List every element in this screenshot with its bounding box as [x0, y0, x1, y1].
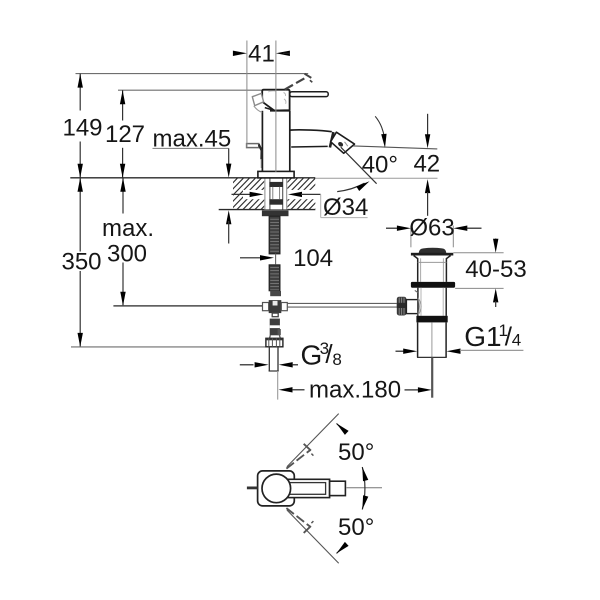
plan lever tip [330, 481, 346, 495]
pop-up knob bar [247, 144, 259, 148]
knob stem [406, 300, 418, 314]
40deg arc [337, 183, 364, 191]
waste body walls [417, 288, 419, 316]
dimension Ø34 right shaft [301, 193, 321, 195]
svg-text:Ø34: Ø34 [323, 194, 368, 221]
dimension 41 right [276, 51, 290, 56]
waste cap dome [419, 248, 447, 253]
dimension G1 1/4 left [396, 350, 404, 352]
extension line, hose end level (350 bottom) [71, 346, 266, 348]
dimension Ø63 right [453, 226, 467, 231]
plan swing line lower [287, 510, 339, 563]
dimension 42 top [427, 114, 429, 136]
dimension 104 tick [275, 254, 277, 265]
threaded rod lower [269, 265, 280, 291]
spout end joint [330, 132, 334, 147]
hex nut top band [266, 338, 283, 340]
supply pipe end [269, 370, 279, 372]
supply pipe extension line [277, 371, 279, 400]
dimension max.180 left arrow [279, 387, 293, 392]
waste tube end [417, 356, 447, 358]
svg-text:Ø63: Ø63 [409, 214, 454, 241]
dimension 149 line [79, 74, 81, 111]
dimension 350 up arrow [78, 178, 83, 192]
plan phantom cap upper [304, 444, 311, 451]
waste body inner lines [420, 288, 422, 316]
dimension G3/8 left [240, 364, 254, 366]
dimension max.300 up arrow [120, 178, 125, 192]
deck hole white-out [264, 178, 287, 209]
41 left extension line [246, 41, 248, 148]
plan phantom lever upper [286, 450, 310, 469]
hex nut facets [268, 338, 270, 347]
hose connector block [270, 319, 280, 336]
waste collar [416, 316, 447, 323]
waste neck [414, 256, 451, 282]
pop-up rod left segment [113, 305, 262, 307]
plan body square [258, 471, 295, 506]
fastening shank walls [269, 178, 271, 209]
mounting hole walls [264, 178, 266, 209]
waste boss step [415, 290, 418, 292]
Ø63 extension lines [410, 226, 412, 248]
aerator level reference line [353, 146, 437, 149]
cross fitting lower stub [272, 313, 278, 317]
svg-text:41: 41 [248, 40, 275, 67]
plan swing line upper [287, 414, 339, 467]
dimension G1 1/4 right [447, 349, 461, 354]
svg-text:50°: 50° [338, 439, 374, 466]
dimension max.300 line [122, 178, 124, 214]
plan phantom lever lower [286, 508, 310, 527]
stem inner arcs [418, 299, 419, 314]
dimension max.45 up arrow [226, 210, 231, 224]
dimension G3/8 right [279, 362, 293, 367]
lock nut below deck [262, 210, 289, 216]
waste tube centerline [431, 322, 433, 357]
rod collar [270, 291, 281, 296]
svg-text:127: 127 [105, 121, 145, 148]
plan lever outer [276, 479, 330, 497]
svg-text:8: 8 [332, 350, 341, 369]
cross fitting body [269, 300, 282, 313]
spray axis line [341, 147, 377, 184]
waste neck inner lines [420, 258, 422, 282]
leader to aerator level [375, 116, 384, 138]
spout top edge [290, 130, 332, 132]
svg-text:300: 300 [107, 240, 147, 267]
svg-text:50°: 50° [338, 514, 374, 541]
swing arc middle up arrow [362, 467, 368, 481]
dimension max.45 down arrow [226, 164, 231, 178]
leader down arrow [381, 134, 386, 148]
dimension channel white-out [243, 190, 321, 199]
dimension 40-53 top [495, 239, 497, 241]
plan lever inner [280, 483, 326, 495]
aerator ball [331, 132, 355, 153]
threaded rod upper threads [270, 218, 279, 220]
head reflection marks [284, 93, 286, 97]
swing arc upper arrow [337, 423, 349, 435]
cross fitting left wing [263, 303, 269, 311]
swing arc middle [362, 467, 365, 510]
dimension 350 line [79, 178, 81, 252]
waste neck joint line [418, 261, 447, 263]
dimension 41 left [234, 52, 240, 54]
waste tail extension line [431, 357, 433, 397]
40-53 extension lines [453, 252, 503, 254]
rod knob knurls [398, 298, 400, 315]
fastening shank upper nut [269, 182, 283, 187]
svg-text:40-53: 40-53 [465, 256, 526, 283]
svg-text:4: 4 [512, 331, 521, 350]
deck top extension to the right [315, 177, 437, 179]
lever raised cap dash [305, 74, 312, 78]
dimension 40-53 bottom [493, 288, 498, 302]
svg-text:350: 350 [61, 249, 101, 276]
plan body circle [262, 474, 291, 503]
dimension max.45 leader [153, 147, 229, 149]
dimension 149 down arrow [78, 164, 83, 178]
faucet base flange [258, 171, 294, 178]
dimension Ø34 left shaft [232, 193, 251, 195]
dimension 127 up arrow [120, 90, 125, 104]
cross fitting right wing [281, 303, 287, 311]
deck bottom line [219, 209, 316, 211]
plan centerline [346, 487, 382, 489]
waste cap rim [411, 253, 453, 256]
swing arc lower arrow [337, 542, 349, 554]
lever bar [290, 92, 328, 97]
fastening shank lower nut [269, 199, 283, 205]
svg-text:max.: max. [102, 215, 154, 242]
dimension 350 down arrow [78, 333, 83, 347]
dimension Ø34 right arrow [288, 192, 302, 197]
swing arc middle down arrow [362, 495, 368, 509]
aerator face mark [337, 141, 344, 148]
svg-text:40°: 40° [362, 152, 398, 179]
pop-up knob taper [259, 144, 262, 159]
extension line, cartridge top level (127) [118, 89, 262, 91]
hex nut [266, 338, 283, 347]
dimension Ø34 left arrow [250, 192, 264, 197]
svg-text:104: 104 [293, 245, 333, 272]
plan phantom cap lower [304, 526, 311, 533]
extension line, spout top level (149) [76, 73, 309, 75]
cartridge head outline [262, 90, 289, 111]
pop-up rod right segment [287, 302, 397, 304]
dimension 42 bottom [425, 179, 430, 193]
plan pop-up rod [247, 486, 258, 489]
swing arc upper tail [337, 423, 344, 430]
spout bottom edge [291, 145, 328, 148]
aerator face lines [345, 142, 348, 146]
threaded rod upper [269, 216, 280, 254]
rod knob [397, 297, 407, 316]
svg-text:G1: G1 [464, 321, 501, 352]
threaded rod lower threads [270, 267, 279, 269]
dimension 127 down arrow [120, 164, 125, 178]
svg-text:max.180: max.180 [309, 376, 401, 403]
rod knob mid band [397, 303, 407, 308]
waste flange [411, 282, 455, 288]
svg-text:149: 149 [62, 114, 102, 141]
dimension max.300 down arrow [120, 292, 125, 306]
Ø34 callout box [320, 194, 322, 217]
dimension 149 up arrow [78, 74, 83, 88]
supply pipe walls [268, 347, 270, 371]
lever skirt phantom curve [254, 106, 262, 113]
dimension 104 arrow [260, 255, 274, 260]
lever end cap (lowest position, phantom) [252, 93, 263, 105]
swing arc lower tail [337, 546, 344, 553]
shank inner slot [272, 187, 274, 200]
head bottom joint [270, 110, 290, 112]
dimension max.180 right arrow [405, 389, 419, 391]
deck top line [70, 177, 315, 179]
pop-up knob stem [260, 159, 262, 168]
dimension 127 line [122, 90, 124, 120]
40deg arc arrow [356, 181, 369, 191]
faucet centerline [275, 41, 277, 173]
waste tube walls [417, 322, 419, 357]
dimension max.45 lower shaft [228, 221, 230, 244]
lever raised position (dashed) [285, 77, 308, 90]
svg-text:42: 42 [413, 150, 440, 177]
lever underside line [265, 108, 274, 111]
faucet body walls [261, 111, 263, 172]
dimension Ø63 left [386, 227, 397, 229]
dimension 104 shaft [240, 257, 260, 259]
